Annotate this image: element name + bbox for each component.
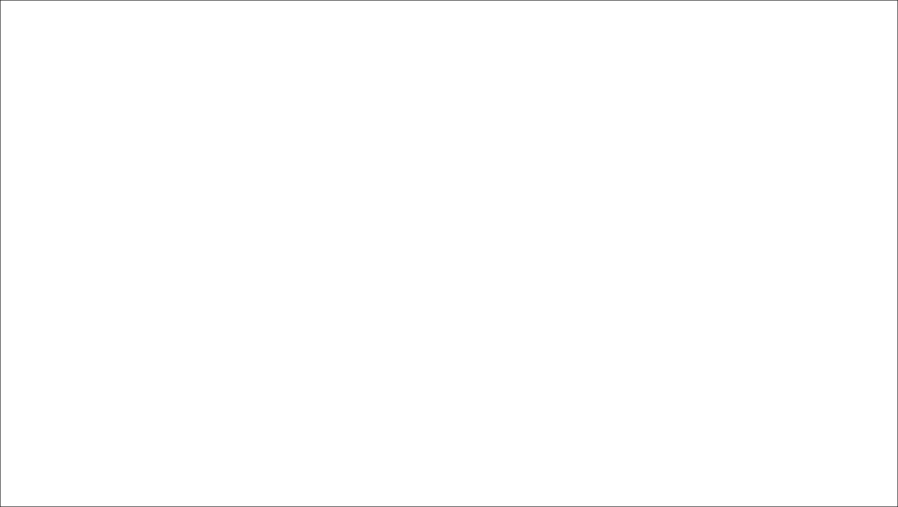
BEAM B3 GROUP — [0, 0, 1, 1]
BEAM B1 GROUP — [0, 0, 1, 1]
BEAM B4 GROUP — [0, 0, 1, 1]
BEAM B2 GROUP — [0, 0, 1, 1]
DETAIL 13 GROUP — [0, 0, 1, 1]
DETAIL 11 GROUP — [0, 0, 1, 1]
DETAIL 12 GROUP — [0, 0, 1, 1]
REFERENCE DIAGONALS GROUP — [0, 0, 1, 1]
